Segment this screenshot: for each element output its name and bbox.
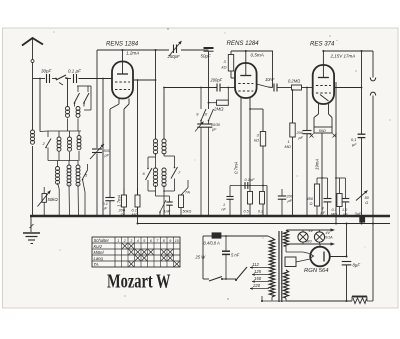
capacitor 200pF grid — [216, 84, 218, 92]
svg-text:МΩ: МΩ — [285, 144, 291, 149]
wire — [346, 224, 348, 257]
speaker jack — [372, 51, 374, 78]
coil L2 — [66, 107, 70, 111]
resistor 0.2MOhm — [292, 85, 302, 90]
junction — [180, 215, 182, 217]
wire cathode V1 — [123, 109, 125, 216]
svg-text:МΩ: МΩ — [331, 213, 337, 217]
svg-text:TA: TA — [94, 262, 99, 267]
capacitor 0.1uF bias — [244, 182, 246, 189]
svg-text:0.7mA: 0.7mA — [234, 161, 239, 174]
svg-text:4V: 4V — [309, 229, 314, 233]
svg-text:RENS 1284: RENS 1284 — [106, 41, 139, 48]
wire mains live — [203, 235, 212, 237]
coil L5 — [69, 131, 71, 137]
resistor 3kOhm screen — [228, 55, 233, 72]
capacitor 3uF — [359, 217, 365, 223]
coil L9 — [77, 161, 79, 166]
svg-text:RES 374: RES 374 — [310, 41, 335, 48]
antenna lead wire — [32, 39, 34, 79]
resistor 0.1MOhm — [135, 195, 140, 207]
svg-text:µF: µF — [321, 210, 326, 215]
wire tie — [336, 177, 346, 179]
coil L1 antenna — [32, 79, 34, 131]
svg-text:5 nF: 5 nF — [231, 253, 240, 258]
lamp 1 — [298, 232, 308, 242]
wire bottom rail — [286, 300, 352, 302]
switch 5 — [83, 170, 88, 179]
junction — [281, 215, 283, 217]
svg-text:3µF: 3µF — [355, 211, 363, 216]
IF coil secondary a — [153, 168, 157, 172]
wire — [296, 259, 310, 262]
junction — [306, 215, 308, 217]
switch TA — [181, 188, 188, 196]
junction — [84, 215, 86, 217]
svg-text:19mA: 19mA — [315, 159, 320, 170]
capacitor 5nF — [222, 250, 230, 252]
capacitor 1uF — [342, 198, 350, 200]
junction — [346, 223, 348, 225]
resistor bleeder — [352, 296, 367, 298]
wire — [225, 236, 227, 251]
svg-text:МΩ: МΩ — [244, 214, 250, 218]
svg-text:200pF: 200pF — [210, 78, 223, 83]
svg-text:RGN 564: RGN 564 — [304, 268, 329, 274]
svg-text:1.0: 1.0 — [342, 208, 348, 212]
svg-text:nF: nF — [222, 208, 227, 212]
resistor 0.1MOhm output — [337, 194, 342, 207]
junction — [109, 215, 111, 217]
tap 150 — [252, 281, 269, 283]
tap 220 — [250, 288, 269, 290]
wire — [123, 188, 125, 195]
capacitor 10nF — [273, 84, 275, 92]
svg-text:µF: µF — [343, 213, 348, 217]
resistor 0.5MOhm — [248, 192, 253, 205]
rheostat 50 Ohm — [356, 191, 368, 201]
wire antenna to grid — [33, 78, 46, 80]
capacitor 4uF — [324, 198, 332, 200]
node HT wire — [97, 49, 169, 51]
ground — [23, 232, 40, 234]
svg-text:4: 4 — [137, 239, 139, 243]
junction — [249, 215, 251, 217]
transformer HT secondary — [284, 270, 289, 298]
pin wires V3 — [318, 104, 320, 114]
coil L8 — [68, 161, 70, 166]
junction — [96, 215, 98, 217]
transformer primary — [269, 238, 274, 297]
wire cathode V2 — [240, 106, 242, 216]
capacitor 30pF — [46, 74, 48, 83]
IF coil secondary b — [162, 168, 166, 172]
wire — [90, 97, 92, 110]
wire — [96, 50, 98, 148]
wire — [155, 153, 157, 168]
capacitor 0.1uF input — [73, 74, 75, 83]
svg-text:kΩ: kΩ — [254, 138, 259, 143]
resistor 200 Ohm — [122, 195, 127, 207]
svg-text:50Ω: 50Ω — [319, 129, 326, 133]
coil L6 — [78, 131, 80, 136]
ground bus — [30, 215, 390, 217]
tube V2 RENS 1284 — [235, 63, 257, 98]
svg-text:4V: 4V — [326, 231, 331, 235]
supply rail — [138, 223, 391, 225]
wire plate V1 — [133, 79, 156, 81]
wire — [272, 51, 274, 88]
switch 8 — [160, 200, 166, 212]
trimmer 250pF — [173, 45, 175, 54]
junction — [262, 215, 264, 217]
wire — [39, 79, 41, 132]
capacitor 50uF — [204, 49, 209, 51]
svg-text:2МΩ: 2МΩ — [213, 107, 224, 112]
junction — [69, 215, 71, 217]
wire tie — [48, 160, 78, 162]
svg-text:125: 125 — [254, 269, 262, 274]
capacitor 8uF — [342, 261, 352, 263]
tap 112 — [250, 267, 269, 269]
junction — [292, 215, 294, 217]
svg-text:1: 1 — [223, 203, 225, 207]
svg-text:Mittel: Mittel — [94, 250, 105, 255]
transformer rect-fil winding — [285, 257, 296, 267]
switch 3 — [75, 93, 80, 103]
trimmer 500pF — [92, 148, 102, 150]
wire tie — [77, 85, 91, 87]
svg-text:0.2: 0.2 — [258, 210, 264, 214]
svg-text:112: 112 — [252, 262, 259, 267]
wire screen V3 — [335, 82, 337, 224]
rectifier RGN 564 — [310, 247, 330, 267]
junction — [321, 215, 323, 217]
svg-text:Lang: Lang — [94, 256, 104, 261]
junction — [200, 215, 202, 217]
capacitor 1nF — [166, 201, 172, 203]
junction — [372, 223, 374, 225]
resistor TA — [179, 195, 184, 208]
wire plate V3 — [334, 87, 362, 89]
svg-text:pF: pF — [104, 154, 110, 158]
wire — [109, 109, 111, 197]
svg-text:2,15V 17mA: 2,15V 17mA — [330, 54, 356, 59]
junction — [229, 215, 231, 217]
node HT2 wire — [231, 50, 273, 52]
switch 7 — [164, 155, 175, 157]
switch 6 — [148, 156, 156, 158]
junction — [339, 215, 341, 217]
svg-text:Schalter: Schalter — [94, 238, 110, 243]
wire — [266, 186, 268, 217]
wire grid V1 — [102, 79, 104, 217]
svg-text:30pF: 30pF — [41, 69, 52, 74]
svg-text:8µF: 8µF — [353, 263, 361, 268]
IF coil primary b — [162, 139, 166, 143]
lamp wire top — [287, 229, 331, 231]
svg-text:9: 9 — [169, 239, 171, 243]
wire — [67, 79, 69, 107]
switch 2 — [47, 131, 49, 137]
switch position table — [92, 237, 180, 267]
svg-text:0.1µF: 0.1µF — [245, 177, 256, 182]
potentiometer 50kOhm — [42, 194, 46, 203]
junction — [266, 215, 268, 217]
svg-text:Kurz: Kurz — [94, 244, 104, 249]
svg-text:1: 1 — [117, 239, 119, 243]
svg-text:383: 383 — [306, 239, 313, 243]
svg-text:0.1 µF: 0.1 µF — [68, 69, 81, 74]
svg-text:0.5: 0.5 — [244, 210, 250, 214]
wire — [155, 50, 157, 139]
resistor 3kOhm cathode — [260, 132, 265, 147]
svg-text:200: 200 — [286, 195, 294, 199]
svg-text:µF: µF — [352, 142, 357, 147]
svg-text:µF: µF — [103, 206, 108, 211]
capacitor block 10uF — [197, 123, 205, 125]
transformer core — [278, 231, 280, 302]
svg-text:1,2mA: 1,2mA — [126, 51, 139, 56]
wire plate V2 — [257, 84, 269, 87]
wire AVC — [163, 88, 165, 140]
pin wires V1 — [118, 99, 120, 105]
voltage selector — [236, 267, 247, 280]
wire rectifier output — [330, 256, 347, 258]
node HT3 wire — [323, 50, 373, 52]
junction — [240, 215, 242, 217]
resistor 2MOhm — [217, 100, 229, 105]
junction — [208, 215, 210, 217]
svg-text:50µF: 50µF — [201, 54, 211, 59]
svg-text:1.7mA: 1.7mA — [117, 194, 122, 207]
svg-text:25 W: 25 W — [195, 255, 207, 260]
svg-text:2: 2 — [123, 239, 126, 243]
coil L4 — [58, 131, 60, 137]
resistor 0.2MOhm bias — [260, 192, 265, 205]
ground lead — [30, 216, 32, 232]
switch mains — [203, 278, 209, 280]
wire — [155, 185, 157, 196]
junction — [57, 215, 59, 217]
capacitor 0.1uF cathode — [105, 197, 114, 199]
svg-text:kΩ: kΩ — [222, 65, 227, 70]
tap 125 — [252, 274, 269, 276]
svg-text:50kΩ: 50kΩ — [183, 210, 192, 214]
junction — [123, 215, 125, 217]
resistor 450 Ohm — [314, 184, 319, 206]
switch 1 — [56, 75, 66, 80]
coil L7 — [57, 161, 59, 167]
svg-text:Ω: Ω — [310, 201, 313, 206]
svg-text:1nF: 1nF — [164, 210, 171, 214]
capacitor 200uF — [281, 189, 283, 196]
switch 4 — [84, 93, 89, 103]
junction — [361, 223, 363, 225]
svg-text:250pF: 250pF — [167, 54, 181, 59]
resistor 50 Ohm filament — [314, 127, 332, 133]
IF coil primary a — [153, 139, 157, 143]
svg-text:0.1: 0.1 — [332, 208, 337, 212]
svg-text:Mozart W: Mozart W — [107, 272, 171, 293]
pin wires V2 — [240, 98, 242, 106]
wire grid V2 — [220, 87, 235, 89]
antenna — [22, 38, 43, 46]
lamp wire bottom — [287, 243, 331, 245]
svg-text:150: 150 — [254, 276, 262, 281]
capacitor block 30uF — [205, 123, 213, 125]
svg-text:Ω: Ω — [365, 200, 368, 205]
resistor 1MOhm — [290, 123, 295, 137]
junction — [137, 223, 139, 225]
coil L3 — [76, 107, 80, 111]
dust specks — [54, 28, 391, 299]
wire screen V1 — [137, 80, 139, 224]
switch 10 — [209, 109, 214, 121]
wire — [249, 106, 251, 216]
fuse 0.4/0.8A — [212, 233, 221, 238]
svg-text:МΩ: МΩ — [132, 212, 138, 217]
transformer heater winding — [284, 230, 289, 246]
svg-text:220: 220 — [252, 283, 261, 288]
junction — [335, 223, 337, 225]
svg-text:0,5mA: 0,5mA — [251, 53, 264, 58]
junction — [163, 215, 165, 217]
wire tie — [40, 130, 48, 133]
svg-text:10nF: 10nF — [265, 77, 275, 82]
wire tie — [156, 195, 170, 197]
tube V1 RENS 1284 — [112, 62, 133, 99]
svg-text:RENS 1284: RENS 1284 — [227, 40, 260, 47]
wire tie — [317, 177, 328, 179]
capacitor 1nF bias — [229, 186, 231, 197]
svg-text:µF: µF — [288, 199, 293, 203]
lamp 2 — [314, 232, 324, 242]
switch 9 — [200, 88, 202, 110]
wire bias — [230, 185, 267, 187]
svg-text:0/1A: 0/1A — [325, 235, 333, 239]
svg-text:pF: pF — [298, 135, 304, 140]
svg-text:0.2МΩ: 0.2МΩ — [288, 79, 300, 84]
tube V3 RES 374 — [313, 65, 334, 104]
svg-text:50kΩ: 50kΩ — [48, 197, 59, 202]
wire cathode V3 — [321, 133, 323, 216]
svg-text:0,4/0,8 A: 0,4/0,8 A — [204, 241, 221, 246]
junction — [78, 215, 80, 217]
capacitor 0.1uF output — [358, 133, 366, 135]
capacitor 200pF anode — [306, 88, 308, 131]
